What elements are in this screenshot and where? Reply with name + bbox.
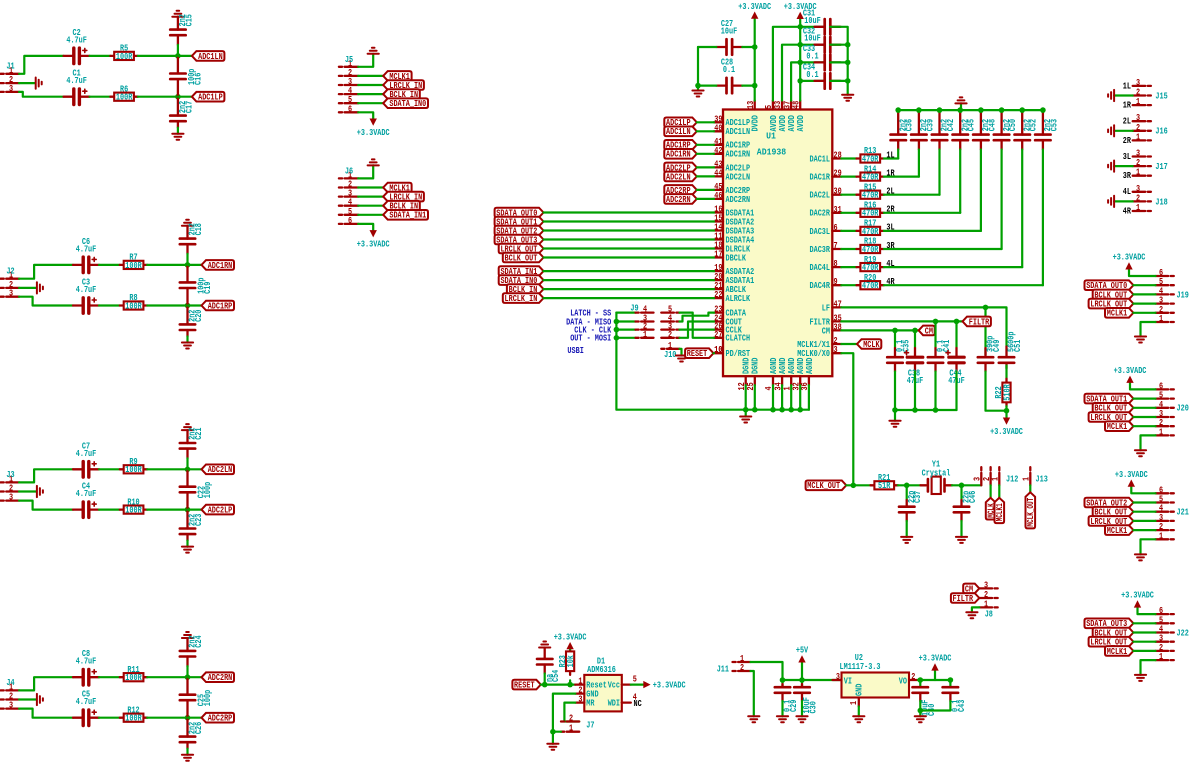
junction [892, 328, 898, 334]
connector J7 [561, 713, 595, 734]
node ADC2LP [664, 162, 697, 173]
svg-text:1: 1 [848, 701, 859, 705]
svg-text:CM: CM [925, 325, 934, 336]
junction [1019, 107, 1025, 113]
connector J2 [1, 266, 20, 299]
svg-text:AGND: AGND [804, 357, 815, 374]
svg-text:J2: J2 [6, 266, 14, 277]
wire [188, 509, 202, 511]
junction [912, 407, 918, 413]
wire [884, 266, 1022, 268]
svg-text:CM: CM [822, 325, 831, 336]
svg-text:ADC1RN: ADC1RN [666, 149, 691, 160]
svg-text:GND: GND [854, 683, 865, 696]
wire [841, 266, 856, 268]
svg-text:C50: C50 [1007, 119, 1018, 131]
node LRCLK_OUT [1089, 516, 1134, 527]
svg-text:1: 1 [569, 723, 573, 734]
ground [172, 11, 183, 17]
svg-text:1: 1 [1159, 651, 1163, 662]
wire [186, 749, 188, 755]
node ADC2RP [664, 185, 697, 196]
wire [1133, 312, 1155, 314]
wire [1141, 660, 1156, 675]
node BCLK_OUT [1093, 627, 1134, 638]
svg-text:3: 3 [9, 83, 13, 94]
svg-text:MR: MR [586, 698, 595, 709]
junction [959, 483, 965, 489]
svg-text:MCLK0/X0: MCLK0/X0 [797, 348, 830, 359]
wire [697, 144, 714, 146]
junction [797, 24, 803, 30]
connector J12 [972, 467, 1019, 485]
ground [955, 97, 966, 103]
node LRCLK_OUT [499, 243, 544, 254]
svg-text:J15: J15 [1155, 90, 1168, 101]
svg-text:+3.3VADC: +3.3VADC [1121, 590, 1154, 601]
wire [698, 46, 716, 48]
svg-text:C24: C24 [193, 635, 204, 648]
svg-text:ADC2LN: ADC2LN [208, 464, 233, 475]
wire [1138, 608, 1156, 615]
svg-text:USBI: USBI [567, 345, 583, 356]
svg-text:DAC4L: DAC4L [810, 262, 831, 273]
IC D1 ADM6316 body [584, 656, 622, 712]
junction [933, 407, 939, 413]
wire [178, 96, 192, 98]
wire J11 to +5V rail [751, 662, 783, 680]
wire [972, 607, 979, 612]
junction [999, 107, 1005, 113]
node MCLK1 [383, 182, 411, 193]
node SDATA_OUT0 [1085, 280, 1134, 291]
wire [616, 312, 635, 314]
wire [188, 304, 202, 306]
wire [358, 75, 383, 77]
svg-text:4L: 4L [1123, 186, 1132, 197]
svg-text:C21: C21 [193, 427, 204, 440]
svg-text:3: 3 [836, 671, 840, 682]
svg-text:+3.3VADC: +3.3VADC [554, 631, 587, 642]
wire [698, 84, 716, 86]
wire LF net [841, 307, 1006, 346]
node FILTR [963, 316, 991, 327]
wire [841, 157, 856, 159]
svg-text:WDI: WDI [608, 698, 620, 709]
wire [919, 701, 921, 716]
svg-text:C18: C18 [193, 223, 204, 236]
junction [185, 507, 191, 513]
svg-text:C36: C36 [904, 119, 915, 131]
resistor R5 [110, 43, 137, 62]
ground [1108, 125, 1114, 136]
svg-text:510R: 510R [1001, 384, 1012, 401]
power +3.3VADC [990, 418, 1023, 438]
wire ground AGND pin 34 [781, 385, 783, 410]
node ADC2RN [664, 194, 697, 205]
svg-text:1: 1 [1136, 167, 1140, 178]
wire CLK to CCLK [680, 329, 715, 331]
junction [918, 708, 924, 714]
wire [894, 410, 896, 421]
svg-text:DAC3R: DAC3R [810, 244, 831, 255]
svg-text:3: 3 [9, 288, 13, 299]
connector J17 [1133, 148, 1168, 178]
wire [616, 320, 635, 322]
svg-text:ADC1LP: ADC1LP [198, 92, 223, 103]
svg-text:MCLK1: MCLK1 [1107, 308, 1128, 319]
svg-text:470R: 470R [862, 280, 879, 291]
ground [1108, 161, 1114, 172]
wire [19, 92, 64, 97]
svg-text:J7: J7 [586, 719, 594, 730]
svg-text:J22: J22 [1177, 627, 1189, 638]
svg-text:ADC2RN: ADC2RN [726, 194, 751, 205]
node SDATA_OUT2 [1085, 497, 1134, 508]
capacitor C18 [180, 223, 204, 254]
svg-text:100R: 100R [116, 92, 133, 103]
wire [884, 176, 919, 178]
junction [904, 483, 910, 489]
svg-text:ADC2LN: ADC2LN [726, 171, 751, 182]
wire [90, 96, 111, 98]
capacitor C26 [180, 718, 204, 749]
svg-text:FILTR: FILTR [969, 316, 990, 327]
connector J1 [1, 61, 20, 94]
ground [368, 159, 379, 165]
junction [933, 319, 939, 325]
wire [841, 230, 856, 232]
wire [1133, 622, 1155, 624]
svg-text:+3.3VADC: +3.3VADC [1114, 365, 1147, 376]
ground [901, 537, 912, 543]
node SDATA_OUT0 [495, 207, 544, 218]
capacitor C32 [803, 25, 841, 52]
svg-text:1L: 1L [1123, 80, 1132, 91]
svg-text:C17: C17 [183, 101, 194, 113]
ground [692, 91, 703, 97]
svg-text:1L: 1L [886, 149, 895, 160]
U2 pins [833, 671, 919, 707]
svg-text:42: 42 [714, 145, 722, 156]
wire [358, 54, 373, 67]
capacitor C23 [180, 510, 204, 541]
junction [185, 467, 191, 473]
svg-text:1: 1 [643, 329, 647, 340]
wire [544, 211, 715, 213]
junction [185, 674, 191, 680]
power +3.3VADC [1114, 365, 1147, 383]
node SDATA_OUT1 [1085, 394, 1134, 405]
ground [740, 417, 751, 423]
wire CM FILTR cap ground rail [895, 409, 957, 411]
junction [845, 60, 851, 66]
wire [998, 485, 1000, 498]
svg-text:10: 10 [714, 344, 722, 355]
svg-text:C26: C26 [193, 722, 204, 734]
svg-text:10k: 10k [565, 655, 576, 668]
wire [884, 157, 898, 159]
svg-text:100p: 100p [202, 481, 213, 498]
capacitor C2 [64, 27, 90, 64]
wire [1133, 501, 1155, 503]
svg-text:51R: 51R [878, 480, 891, 491]
wire [19, 56, 64, 74]
capacitor C25 [180, 677, 213, 718]
wire [553, 732, 561, 744]
wire [959, 150, 961, 213]
ground [182, 220, 193, 226]
connector J9 [630, 302, 679, 339]
wire [697, 130, 714, 132]
svg-text:DAC1R: DAC1R [810, 172, 831, 183]
wire [884, 248, 1002, 250]
svg-text:44: 44 [714, 167, 723, 178]
svg-text:100p: 100p [202, 689, 213, 706]
ground [37, 694, 43, 705]
wire [1129, 270, 1156, 277]
node SDATA_IN0 [383, 98, 428, 109]
node ADC1LP [192, 92, 225, 103]
ground [842, 95, 853, 101]
svg-text:3R: 3R [1123, 170, 1132, 181]
capacitor C48 [973, 110, 997, 149]
svg-text:C51: C51 [1012, 339, 1023, 352]
resistor R19 [857, 254, 884, 273]
svg-text:1: 1 [1136, 96, 1140, 107]
ground [676, 356, 687, 362]
wire [1131, 487, 1155, 494]
junction [797, 407, 803, 413]
capacitor C15 [170, 14, 194, 45]
svg-text:8: 8 [834, 258, 838, 269]
svg-text:DAC2L: DAC2L [810, 190, 831, 201]
wire [631, 683, 644, 685]
wire [138, 96, 178, 98]
svg-text:3L: 3L [886, 222, 895, 233]
resistor R14 [857, 163, 884, 182]
wire [19, 82, 35, 84]
svg-text:C48: C48 [986, 119, 997, 132]
wire [358, 224, 373, 231]
svg-text:SDATA_IN0: SDATA_IN0 [389, 98, 426, 109]
ground [37, 486, 43, 497]
wire [90, 55, 111, 57]
power +3.3VADC [784, 1, 817, 19]
wire [569, 647, 571, 649]
svg-text:C20: C20 [193, 310, 204, 322]
wire [1133, 293, 1155, 295]
wire [697, 198, 714, 200]
svg-text:C37: C37 [912, 491, 923, 503]
wire [544, 229, 715, 231]
svg-text:J16: J16 [1155, 126, 1167, 137]
ground [182, 424, 193, 430]
wire AVDD pin48 supply riser [799, 19, 801, 101]
capacitor C43 [943, 680, 967, 712]
wire AVDD pin33 [782, 45, 825, 101]
wire [358, 165, 373, 178]
svg-text:4.7uF: 4.7uF [76, 243, 97, 254]
svg-text:RESET: RESET [687, 348, 708, 359]
ground [368, 48, 379, 54]
junction [918, 677, 924, 683]
wire [99, 304, 120, 306]
wire [952, 484, 981, 486]
connector J20 [1156, 380, 1189, 437]
node ADC1LP [664, 117, 697, 128]
wire MCLK0/X0 to crystal [841, 353, 853, 485]
ground [966, 612, 977, 618]
wire [147, 304, 187, 306]
svg-text:C19: C19 [202, 282, 213, 294]
svg-text:J1: J1 [6, 61, 15, 72]
svg-text:ADC2LN: ADC2LN [666, 171, 691, 182]
wire [544, 247, 715, 249]
wire [989, 485, 991, 498]
wire [846, 484, 870, 486]
wire [742, 84, 754, 86]
svg-text:C49: C49 [991, 340, 1002, 352]
node BCLK_OUT [503, 252, 544, 263]
ground [1135, 450, 1146, 456]
svg-text:3L: 3L [1123, 151, 1132, 162]
wire [1133, 511, 1155, 513]
wire [544, 220, 715, 222]
node ADC2LN [202, 464, 235, 475]
capacitor C38 [905, 330, 924, 386]
svg-text:C43: C43 [956, 699, 967, 712]
wire [19, 490, 36, 492]
capacitor C20 [180, 306, 204, 337]
wire ground AGND pin 32 [799, 385, 801, 410]
resistor R13 [857, 145, 884, 164]
IC U2 LM1117-3.3 body [840, 652, 910, 698]
resistor R20 [857, 272, 884, 291]
wire AVDD pin5 [773, 27, 825, 101]
svg-text:4.7uF: 4.7uF [76, 696, 97, 707]
wire [1133, 631, 1155, 633]
wire [830, 44, 847, 46]
junction [895, 107, 901, 113]
node SDATA_IN1 [383, 210, 428, 221]
capacitor C54 [537, 648, 561, 683]
svg-text:100R: 100R [125, 464, 142, 475]
wire [544, 238, 715, 240]
svg-text:J9: J9 [630, 302, 638, 313]
node LRCLK_OUT [1089, 637, 1134, 648]
connector J3 [1, 469, 20, 502]
node ADC1LN [192, 51, 225, 62]
svg-text:46: 46 [714, 190, 722, 201]
wire [1133, 398, 1155, 400]
svg-text:2: 2 [668, 329, 672, 340]
capacitor C19 [180, 265, 213, 306]
svg-text:ADC1LN: ADC1LN [198, 51, 223, 62]
node MCLK [986, 498, 997, 520]
capacitor C42 [932, 110, 956, 149]
svg-text:0.1: 0.1 [723, 64, 736, 75]
junction [983, 305, 989, 311]
svg-text:ADC2RN: ADC2RN [208, 672, 233, 683]
wire [884, 194, 940, 196]
node MCLK1 [1105, 308, 1133, 319]
node RESET [512, 680, 540, 691]
svg-text:6: 6 [348, 215, 352, 226]
svg-text:10uF: 10uF [721, 26, 737, 37]
connector J11 [717, 653, 751, 675]
wire [830, 80, 847, 82]
wire [1005, 406, 1007, 417]
node SDATA_OUT1 [495, 216, 544, 227]
svg-text:ADC1RN: ADC1RN [726, 149, 751, 160]
wire [1133, 284, 1155, 286]
svg-text:DGND: DGND [750, 357, 761, 374]
svg-text:40: 40 [714, 122, 722, 133]
svg-text:2L: 2L [1123, 116, 1132, 127]
svg-text:C30: C30 [808, 701, 819, 713]
connector J6 [339, 165, 358, 226]
wire [186, 666, 188, 677]
wire [19, 287, 36, 289]
wire [841, 176, 856, 178]
wire [19, 501, 73, 510]
wire MOSI to COUT [680, 322, 715, 338]
wire [920, 701, 950, 711]
junction [978, 107, 984, 113]
resistor R10 [120, 496, 147, 515]
wire [186, 458, 188, 469]
svg-text:C54: C54 [550, 669, 561, 682]
power +3.3VADC [919, 653, 952, 671]
wire [742, 46, 754, 48]
ground [956, 537, 967, 543]
svg-text:J19: J19 [1177, 289, 1189, 300]
U1 right pins [797, 150, 842, 360]
svg-text:DBCLK: DBCLK [726, 252, 747, 263]
node SDATA_OUT3 [1085, 618, 1134, 629]
svg-text:4.7uF: 4.7uF [66, 34, 87, 45]
wire [616, 329, 635, 331]
wire [544, 270, 715, 272]
capacitor C34 [803, 62, 841, 89]
resistor R18 [857, 236, 884, 255]
svg-text:4.7uF: 4.7uF [76, 284, 97, 295]
wire [358, 196, 383, 198]
capacitor C41 [928, 321, 952, 371]
wire [781, 701, 783, 716]
wire [697, 153, 714, 155]
node MCLK1 [1105, 525, 1133, 536]
junction [550, 729, 556, 735]
svg-text:9: 9 [834, 276, 838, 287]
junction [892, 407, 898, 413]
node LRCLK_OUT [1089, 412, 1134, 423]
wire [884, 230, 981, 232]
svg-text:J13: J13 [1036, 473, 1049, 484]
capacitor C16 [170, 56, 203, 97]
ground [182, 632, 193, 638]
svg-text:+3.3VADC: +3.3VADC [1115, 469, 1148, 480]
svg-text:1: 1 [1021, 477, 1032, 481]
wire [19, 297, 73, 306]
ground [182, 755, 193, 761]
connector J10 [661, 340, 679, 360]
capacitor C53 [1035, 110, 1059, 149]
capacitor C49 [978, 307, 1002, 371]
wire D1 GND [553, 694, 575, 732]
svg-text:J10: J10 [664, 349, 676, 360]
